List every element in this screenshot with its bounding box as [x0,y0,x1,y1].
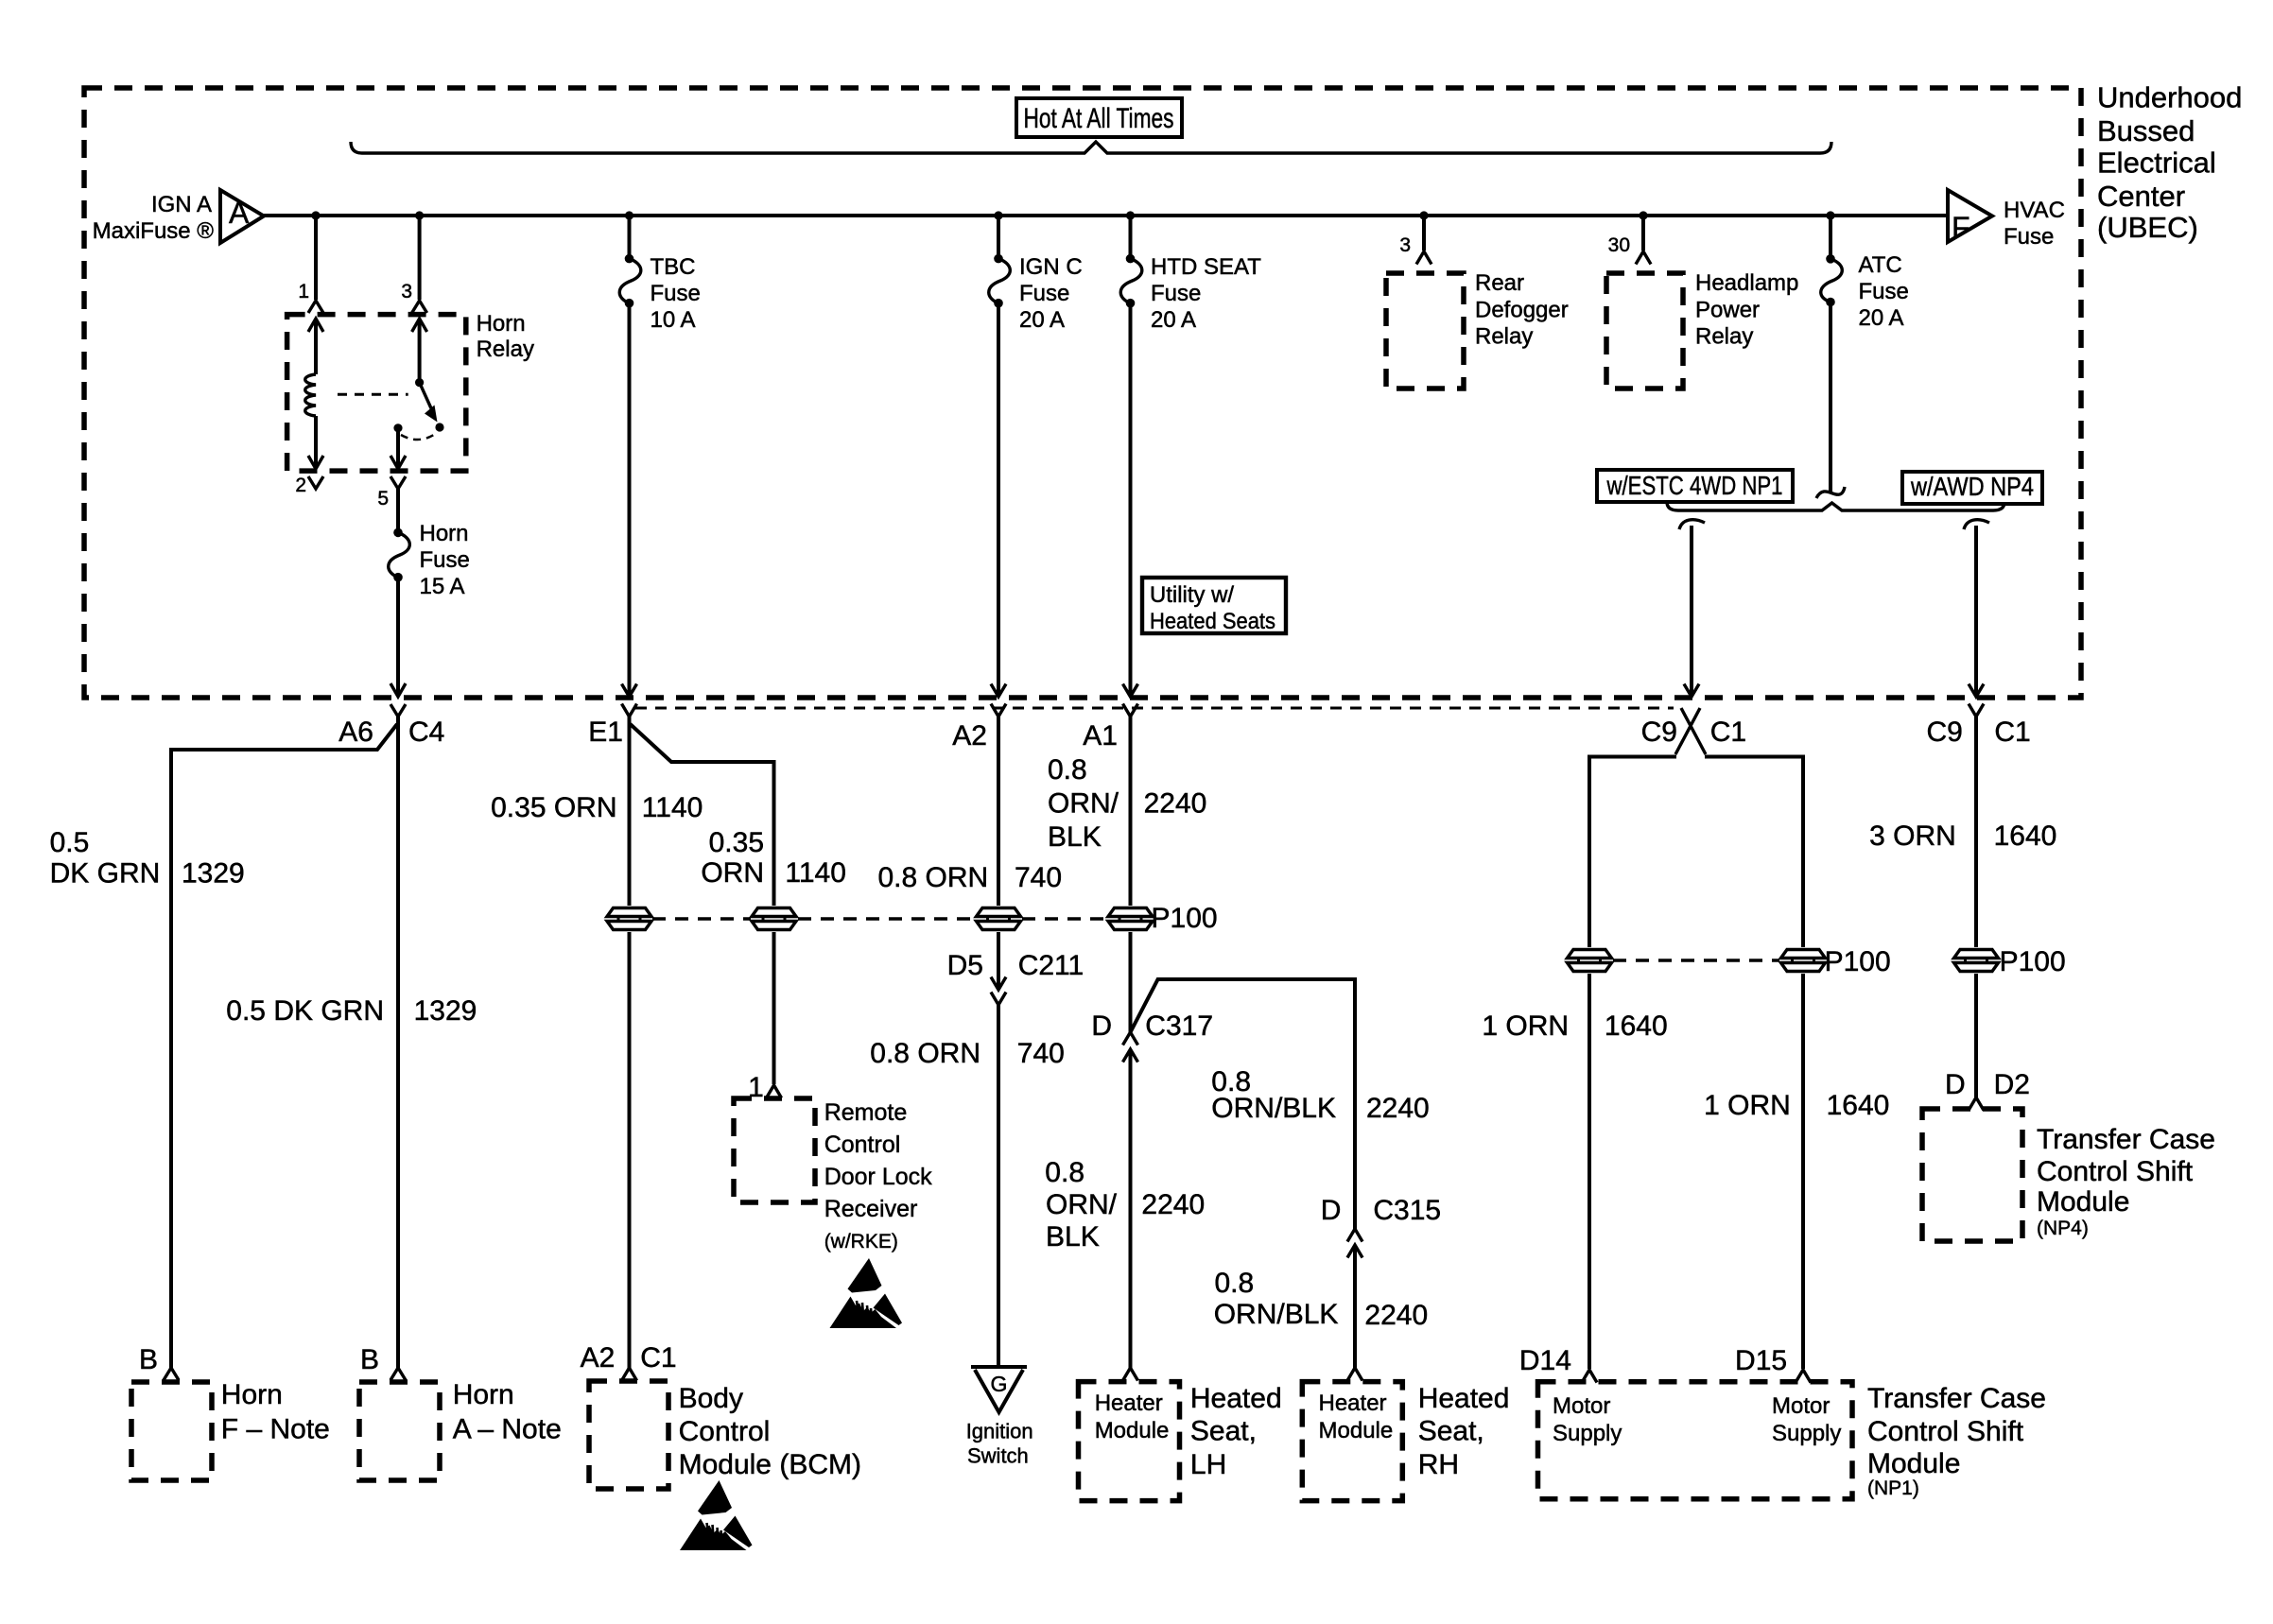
break hook at w/ESTC branch [1679,520,1705,529]
svg-text:740: 740 [1017,1038,1065,1069]
svg-text:w/AWD NP4: w/AWD NP4 [1910,472,2034,501]
svg-text:D15: D15 [1735,1345,1787,1376]
wire: A1 down to P100 [1129,717,1133,906]
svg-text:A: A [229,196,250,230]
svg-text:Control Shift: Control Shift [1867,1416,2024,1447]
connector fork at heater module LH [1123,1368,1138,1381]
svg-text:Fuse: Fuse [1019,281,1069,306]
remote control door lock receiver dashed box [734,1098,815,1202]
connector fork C9 AWD [1969,704,1984,717]
ATC fuse element [1826,254,1835,264]
svg-text:Horn: Horn [477,311,526,337]
relay coil [305,374,316,416]
svg-text:D14: D14 [1519,1345,1571,1376]
wire: main bus from A to F [264,214,1948,217]
svg-text:1 ORN: 1 ORN [1704,1090,1791,1121]
inline connector P100 on HTD wire [1108,908,1153,930]
svg-text:0.8 ORN: 0.8 ORN [877,862,988,893]
svg-text:C211: C211 [1018,950,1084,981]
wire: bus tap down to ATC fuse [1829,216,1832,259]
node label box: Hot At All Times [1016,98,1182,137]
svg-text:ATC: ATC [1859,252,1902,278]
connector fork A2 [991,704,1006,717]
svg-text:0.8: 0.8 [1215,1268,1255,1299]
arrow into pin 1 (inside relay) [308,319,323,332]
svg-text:Door Lock: Door Lock [824,1164,932,1190]
svg-text:B: B [360,1344,379,1375]
svg-text:Electrical: Electrical [2097,147,2216,180]
ESD sensitive symbol at BCM [680,1480,753,1550]
wire: P100 to C211 [997,932,1000,990]
arrow into pin 3 (inside relay) [412,319,427,332]
option label box: w/ESTC 4WD NP1 [1597,470,1793,502]
arrow at UBEC edge (C4) [390,683,406,697]
svg-text:1640: 1640 [1605,1011,1668,1042]
wire: IGN C fuse to UBEC edge [997,303,1000,696]
wire: right P100 down to D15 [1801,974,1805,1369]
svg-text:A6: A6 [338,717,373,748]
svg-text:HVAC: HVAC [2004,198,2065,223]
connector fork at BCM [622,1368,637,1381]
svg-text:1640: 1640 [1994,821,2057,852]
break hook at ATC wire end [1816,487,1845,498]
svg-text:Fuse: Fuse [420,547,470,573]
svg-text:P100: P100 [1825,946,1891,977]
arrow at UBEC edge (A1) [1123,684,1138,698]
wire: HTD SEAT fuse to UBEC edge [1129,303,1133,696]
svg-text:1329: 1329 [414,995,477,1027]
wire: C317 down to heater module LH [1129,1049,1133,1368]
svg-text:2240: 2240 [1364,1300,1428,1331]
svg-text:P100: P100 [1152,903,1218,934]
wire: pin 1 to coil [314,319,318,374]
svg-text:Underhood: Underhood [2097,81,2242,114]
transfer case control shift module NP1 dashed box [1538,1382,1853,1499]
svg-text:Supply: Supply [1553,1421,1622,1446]
svg-text:F: F [1952,211,1970,245]
svg-text:A2: A2 [952,720,987,752]
horn A-note dashed box [359,1382,440,1480]
svg-text:E1: E1 [588,717,623,748]
wire: P100 down to BCM [628,932,632,1368]
svg-text:Module: Module [1319,1418,1394,1443]
svg-text:Fuse: Fuse [1859,279,1909,304]
junction on bus at horn relay pin 1 [311,211,320,219]
connector fork at horn A-note [390,1368,406,1380]
horn fuse element [393,528,403,538]
svg-text:Center: Center [2097,180,2185,213]
svg-text:30: 30 [1608,234,1630,256]
svg-text:Transfer Case: Transfer Case [1867,1383,2046,1414]
svg-text:10 A: 10 A [651,307,696,333]
svg-text:C1: C1 [640,1342,676,1373]
wire: coil to pin 2 [314,416,318,466]
svg-text:C4: C4 [408,717,444,748]
BCM dashed box [589,1381,668,1489]
wire: bus tap down to TBC fuse [628,216,632,259]
svg-text:(NP4): (NP4) [2037,1218,2089,1239]
svg-text:2: 2 [295,475,306,496]
svg-text:RH: RH [1418,1449,1459,1480]
svg-text:C315: C315 [1373,1195,1441,1226]
inline connector P100 (AWD wire) [1954,950,1999,972]
rear defogger relay dashed box [1386,273,1464,389]
wire: C211 down to ignition switch [997,1005,1000,1367]
wire: C1 down to P100 (AWD) [1974,717,1978,947]
svg-text:(NP1): (NP1) [1867,1477,1919,1499]
wire: pin 3 to switch pivot [418,319,422,383]
HTD SEAT fuse element [1126,254,1136,264]
fuse terminal A (IGN A MaxiFuse) triangle [220,190,264,243]
wire: crossover right branch [1705,757,1803,948]
svg-text:Ignition: Ignition [966,1420,1033,1443]
junction on bus at horn relay pin 3 [415,211,424,219]
svg-text:G: G [991,1372,1008,1396]
svg-text:Relay: Relay [1695,324,1753,350]
svg-text:IGN A: IGN A [151,192,212,217]
svg-text:20 A: 20 A [1019,307,1065,333]
svg-text:1140: 1140 [642,792,703,823]
svg-text:Heater: Heater [1095,1391,1163,1416]
connector fork at NP4 module [1969,1097,1984,1111]
svg-text:3 ORN: 3 ORN [1869,821,1956,852]
connector fork at rear defogger relay [1416,251,1431,265]
svg-text:Heated Seats: Heated Seats [1150,609,1275,634]
wire: bus tap down to horn relay pin 1 [314,216,318,300]
branch wire from C4 to horn F-note drop [171,724,397,1368]
svg-text:Seat,: Seat, [1418,1416,1484,1447]
dashed travel arc of switch [401,433,437,440]
wire: TBC fuse to UBEC edge [628,303,632,696]
svg-text:Seat,: Seat, [1190,1416,1257,1447]
terminal G triangle (ignition switch feed) [971,1365,1027,1369]
wire: w/ESTC branch down to UBEC edge [1690,526,1693,696]
svg-text:Motor: Motor [1553,1393,1610,1419]
svg-text:2240: 2240 [1366,1093,1430,1124]
svg-text:Body: Body [679,1383,743,1414]
wire: P100 down to receiver [772,932,776,1084]
junction on bus at headlamp power relay [1639,211,1647,219]
svg-text:Module: Module [1095,1418,1170,1443]
svg-text:Relay: Relay [1475,324,1533,350]
inline connector D / C317 [1123,1032,1138,1045]
svg-text:Power: Power [1695,298,1760,323]
svg-text:Defogger: Defogger [1475,298,1569,323]
junction on bus at TBC fuse [625,211,633,219]
svg-text:ORN: ORN [701,857,764,889]
svg-text:Fuse: Fuse [651,281,701,306]
crossover wires below C9/C1 [1675,708,1706,754]
wire: ATC fuse down to option break [1829,302,1832,493]
switch pivot junction [415,378,424,387]
junction on bus at IGN C fuse [994,211,1002,219]
svg-text:20 A: 20 A [1151,307,1196,333]
dashed tie line between P100 connectors [1613,959,1779,962]
wire: C4 down to horn A-note [396,717,400,1368]
option label box: w/AWD NP4 [1902,472,2042,504]
connector fork at heater module RH [1347,1368,1362,1381]
svg-text:BLK: BLK [1048,821,1102,853]
arrow out of pin 5 (inside relay) [390,456,406,469]
inline connector P100 on TBC wire [607,908,651,930]
svg-text:Fuse: Fuse [2004,224,2054,250]
headlamp power relay dashed box [1606,273,1683,389]
inline connector D5 / C211 [991,977,1006,991]
svg-text:1: 1 [298,281,309,302]
svg-text:(UBEC): (UBEC) [2097,211,2198,244]
inline connector P100 (left motor supply wire) [1568,950,1612,972]
svg-text:Control: Control [679,1416,771,1447]
svg-text:MaxiFuse ®: MaxiFuse ® [93,218,215,244]
svg-text:A – Note: A – Note [453,1414,562,1445]
svg-text:w/ESTC 4WD NP1: w/ESTC 4WD NP1 [1606,471,1783,500]
connector fork E1 [622,704,637,717]
junction on bus at rear defogger relay [1419,211,1428,219]
svg-text:Headlamp: Headlamp [1695,270,1798,296]
arrow at UBEC edge (A2) [991,684,1006,698]
svg-text:0.8: 0.8 [1045,1157,1084,1188]
wire: horn fuse to UBEC edge [396,578,400,696]
svg-text:C1: C1 [1710,717,1746,748]
Underhood Bussed Electrical Center (UBEC) dashed boundary box [84,88,2081,698]
svg-text:ORN/: ORN/ [1048,788,1119,820]
svg-text:0.35: 0.35 [709,827,764,858]
transfer case control shift module NP4 dashed box [1922,1109,2022,1241]
svg-text:0.5: 0.5 [50,827,90,858]
svg-text:Hot At All Times: Hot At All Times [1024,103,1174,134]
connector fork at pin 1 [308,301,323,313]
svg-text:BLK: BLK [1046,1221,1100,1253]
svg-text:1140: 1140 [785,857,846,889]
svg-text:A2: A2 [581,1342,616,1373]
junction on bus at ATC fuse [1826,211,1834,219]
svg-text:Module: Module [2037,1186,2129,1218]
svg-text:ORN/: ORN/ [1046,1189,1118,1220]
svg-text:0.8: 0.8 [1048,754,1087,786]
svg-text:HTD SEAT: HTD SEAT [1151,254,1261,280]
svg-text:Switch: Switch [967,1444,1029,1468]
branch wire from E1 to remote receiver drop [631,724,774,906]
svg-text:D: D [1945,1069,1966,1100]
connector fork C4 below UBEC edge [390,704,406,717]
thin dashed boundary line below UBEC edge [635,707,1674,710]
dashed actuation link from coil to switch [338,393,408,396]
svg-text:2240: 2240 [1141,1189,1205,1220]
svg-text:3: 3 [401,281,412,302]
ESD sensitive symbol at receiver [830,1258,903,1328]
svg-text:20 A: 20 A [1859,305,1904,331]
svg-text:B: B [139,1344,158,1375]
svg-text:D: D [1321,1195,1342,1226]
wire: P100 to C317 [1129,932,1133,1032]
svg-text:Relay: Relay [477,337,534,362]
svg-text:(w/RKE): (w/RKE) [824,1231,898,1253]
svg-text:Rear: Rear [1475,270,1524,296]
dashed tie line between P100 connectors [652,917,1107,921]
switch contact (moving end) [435,423,443,431]
svg-text:DK GRN: DK GRN [50,858,161,890]
svg-text:Fuse: Fuse [1151,281,1201,306]
wire: A2 down to P100 [997,717,1000,906]
break hook at w/AWD branch [1964,520,1989,529]
svg-text:1640: 1640 [1827,1090,1890,1121]
svg-text:Receiver: Receiver [824,1196,918,1222]
svg-text:15 A: 15 A [420,574,465,599]
svg-text:Supply: Supply [1772,1421,1841,1446]
connector fork at horn F-note [164,1368,179,1380]
svg-text:ORN/BLK: ORN/BLK [1214,1299,1339,1330]
svg-text:LH: LH [1190,1449,1226,1480]
arrow out of pin 2 (inside relay) [308,456,323,469]
svg-text:Horn: Horn [221,1379,283,1410]
svg-text:Horn: Horn [453,1379,514,1410]
svg-text:Horn: Horn [420,521,469,546]
svg-text:0.8 ORN: 0.8 ORN [870,1038,980,1069]
svg-text:Control: Control [824,1132,901,1158]
svg-text:TBC: TBC [651,254,696,280]
svg-text:IGN C: IGN C [1019,254,1083,280]
svg-text:Module: Module [1867,1448,1960,1479]
relay switch blade [420,383,431,408]
svg-text:A1: A1 [1083,720,1118,752]
svg-text:Remote: Remote [824,1099,908,1126]
svg-text:F – Note: F – Note [221,1414,330,1445]
wire: E1 down to P100 [628,717,632,906]
heater module LH dashed box [1079,1382,1180,1501]
wire: left P100 down to D14 [1588,974,1591,1369]
option bracket [1667,502,2004,510]
svg-text:Heated: Heated [1418,1383,1510,1414]
inline connector P100 on IGN C wire [977,908,1021,930]
inline connector P100 (right motor supply wire) [1781,950,1826,972]
svg-text:C317: C317 [1145,1011,1213,1042]
svg-text:3: 3 [1399,234,1411,256]
connector fork at pin 2 [308,476,323,489]
inline connector P100 on receiver wire [752,908,796,930]
wire: P100 down to D2 [1974,974,1978,1097]
connector fork A1 [1123,704,1138,717]
svg-text:0.35 ORN: 0.35 ORN [491,792,616,823]
branch wire from C317 to heated seat RH [1131,979,1356,1229]
svg-text:C9: C9 [1641,717,1677,748]
connector fork at receiver [767,1085,782,1098]
svg-text:5: 5 [377,488,389,510]
heater module RH dashed box [1302,1382,1402,1501]
svg-text:Transfer Case: Transfer Case [2037,1124,2215,1155]
connector fork D15 [1796,1370,1811,1383]
wire: bus tap down to headlamp power relay [1641,216,1645,251]
bracket under Hot At All Times label [351,142,1831,153]
wire: bus tap down to IGN C fuse [997,216,1000,259]
wire: bus tap down to horn relay pin 3 [418,216,422,300]
wire: bus tap down to rear defogger relay [1422,216,1426,251]
svg-text:C9: C9 [1926,717,1962,748]
inline connector D / C315 [1347,1229,1362,1242]
svg-text:D2: D2 [1994,1069,2030,1100]
connector fork at pin 5 [390,476,406,489]
fuse terminal F (HVAC Fuse) triangle [1948,190,1992,242]
svg-text:Control Shift: Control Shift [2037,1156,2194,1187]
option label box: Utility w/ Heated Seats [1142,578,1286,633]
connector fork at pin 3 [412,301,427,313]
TBC fuse element [625,254,634,264]
svg-text:P100: P100 [2000,946,2066,977]
svg-text:0.5 DK GRN: 0.5 DK GRN [226,995,384,1027]
junction on bus at HTD SEAT fuse [1126,211,1135,219]
arrow at UBEC edge (C9 crossover) [1684,684,1699,698]
connector fork D14 [1582,1370,1597,1383]
arrow at UBEC edge (E1) [622,684,637,698]
horn F-note dashed box [131,1382,212,1480]
svg-text:D5: D5 [947,950,983,981]
svg-text:740: 740 [1015,862,1062,893]
svg-text:Bussed: Bussed [2097,114,2195,147]
wire: crossover left branch [1589,757,1676,948]
svg-text:1329: 1329 [182,858,245,890]
svg-text:Utility w/: Utility w/ [1150,582,1234,608]
svg-text:1 ORN: 1 ORN [1482,1011,1569,1042]
IGN C fuse element [994,254,1003,264]
wire: C315 down to heater module RH [1353,1245,1357,1368]
svg-text:Motor: Motor [1772,1393,1830,1419]
svg-text:Heater: Heater [1319,1391,1387,1416]
arrow at UBEC edge (C9 AWD) [1969,684,1984,698]
switch contact at pin 5 [393,423,402,432]
connector fork at headlamp power relay [1636,251,1651,265]
svg-text:Module (BCM): Module (BCM) [679,1449,861,1480]
svg-text:C1: C1 [1994,717,2030,748]
svg-text:Heated: Heated [1190,1383,1282,1414]
wire: bus tap down to HTD SEAT fuse [1129,216,1133,259]
svg-text:2240: 2240 [1144,788,1207,820]
horn relay dashed box [287,315,466,472]
wire: w/AWD branch down to UBEC edge [1974,526,1978,696]
svg-text:D: D [1091,1011,1112,1042]
wire: pin 5 contact down [396,428,400,466]
svg-text:ORN/BLK: ORN/BLK [1211,1093,1336,1124]
wire: pin 5 to horn fuse [396,489,400,532]
